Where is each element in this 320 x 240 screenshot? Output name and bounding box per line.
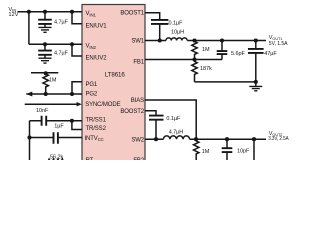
capacitor C2 4.7uF xyxy=(44,44,46,50)
capacitor C1 4.7uF xyxy=(44,12,46,20)
wire VIN rail down xyxy=(28,12,30,45)
svg-text:1µF: 1µF xyxy=(54,123,64,129)
junction C6 at VOUT1 xyxy=(220,38,224,42)
svg-text:3.3V, 2.5A: 3.3V, 2.5A xyxy=(268,136,289,142)
svg-text:1M: 1M xyxy=(49,78,57,84)
arrow SYNC/MODE xyxy=(77,102,82,106)
wire FB1 xyxy=(145,59,222,61)
junction VIN rail top xyxy=(27,10,31,14)
wire SYNC/MODE xyxy=(25,103,78,105)
junction PG1 tap xyxy=(70,92,74,96)
resistor R5 1M FB2 xyxy=(194,139,199,162)
ground xyxy=(39,58,52,63)
svg-text:PG1: PG1 xyxy=(86,82,98,88)
capacitor C4 1uF INTVCC xyxy=(30,137,54,139)
IC U1 LT8616 body xyxy=(82,5,145,165)
wire EN/UV2 xyxy=(72,44,82,56)
svg-text:SW1: SW1 xyxy=(131,38,144,44)
wire TR/SS2 branch xyxy=(72,121,82,130)
wire SW2 xyxy=(145,138,163,140)
ground xyxy=(39,27,52,32)
svg-text:FB1: FB1 xyxy=(133,59,144,65)
wire EN/UV1 xyxy=(72,12,82,24)
resistor R2 56.2k RT xyxy=(30,159,83,164)
junction TR/SS tap xyxy=(70,119,74,123)
junction C5 at SW1 xyxy=(158,38,162,42)
svg-text:47µF: 47µF xyxy=(264,51,277,57)
wire VOUT2 xyxy=(190,138,266,140)
svg-text:4.7µF: 4.7µF xyxy=(54,20,69,26)
junction R3 at VOUT1 xyxy=(192,38,196,42)
ground output1 xyxy=(255,82,257,86)
svg-text:10pF: 10pF xyxy=(237,149,250,155)
capacitor C9 10pF xyxy=(226,139,228,148)
svg-text:VIN1: VIN1 xyxy=(86,11,97,17)
inductor L1 10uH xyxy=(166,38,187,41)
junction C7 at VOUT1 xyxy=(254,38,258,42)
svg-text:SW2: SW2 xyxy=(131,137,144,143)
junction R1 top xyxy=(44,71,48,75)
svg-text:TR/SS1: TR/SS1 xyxy=(86,118,107,124)
resistor R1 1M xyxy=(43,73,48,94)
junction C2 at VIN2 xyxy=(43,42,47,46)
wire VOUT1 xyxy=(187,40,266,42)
wire VIN2 xyxy=(29,43,82,45)
svg-text:LT8616: LT8616 xyxy=(105,73,126,79)
junction gnd output1 xyxy=(254,80,258,84)
wire BOOST2 xyxy=(145,111,156,116)
junction node FB1 xyxy=(192,57,196,61)
svg-text:BIAS: BIAS xyxy=(131,98,144,104)
svg-text:10µH: 10µH xyxy=(171,30,184,36)
svg-text:12V: 12V xyxy=(8,12,18,18)
junction R5 at VOUT2 xyxy=(194,137,198,141)
resistor R4 187k xyxy=(192,60,197,82)
wire TR/SS1 with C 10nF xyxy=(30,120,42,122)
node INTVCC rail bar xyxy=(31,72,58,74)
svg-text:EN/UV1: EN/UV1 xyxy=(86,23,108,29)
svg-text:VIN2: VIN2 xyxy=(86,44,97,50)
svg-text:EN/UV2: EN/UV2 xyxy=(86,56,108,62)
resistor R3 1M xyxy=(192,41,197,60)
junction C8 at SW2 xyxy=(154,137,158,141)
wire VIN1 xyxy=(18,11,83,13)
capacitor C8 0.1uF boost2 xyxy=(149,116,164,120)
arrow PG2 xyxy=(26,92,32,97)
wire ground rail left xyxy=(29,121,31,161)
svg-text:10nF: 10nF xyxy=(36,108,49,114)
svg-text:1M: 1M xyxy=(202,149,210,155)
wire PG1 bracket xyxy=(72,82,82,94)
svg-text:BOOST2: BOOST2 xyxy=(120,109,144,115)
svg-text:187k: 187k xyxy=(200,66,212,72)
junction C9 at VOUT2 xyxy=(225,137,229,141)
svg-text:BOOST1: BOOST1 xyxy=(120,10,144,16)
junction C10 at VOUT2 xyxy=(252,137,256,141)
svg-text:4.7µF: 4.7µF xyxy=(54,51,69,57)
wire BOOST1 xyxy=(145,13,160,20)
svg-text:5V, 1.5A: 5V, 1.5A xyxy=(269,41,288,47)
wire output cap 2 branch xyxy=(253,139,255,162)
inductor L2 4.7uH xyxy=(163,136,189,139)
wire BIAS xyxy=(145,100,196,139)
svg-text:FB2: FB2 xyxy=(133,158,144,160)
capacitor C5 0.1uF boost1 xyxy=(151,20,168,24)
svg-text:56.2k: 56.2k xyxy=(50,155,64,161)
svg-text:PG2: PG2 xyxy=(86,91,98,97)
svg-text:5.6pF: 5.6pF xyxy=(231,51,246,57)
wire SW1 xyxy=(145,40,166,42)
svg-text:RT: RT xyxy=(86,158,94,160)
svg-text:4.7µH: 4.7µH xyxy=(169,129,184,135)
junction EN/UV2 tap xyxy=(70,42,74,46)
svg-text:0.1µF: 0.1µF xyxy=(169,20,184,26)
junction EN/UV1 tap xyxy=(70,10,74,14)
svg-text:INTVCC: INTVCC xyxy=(85,136,104,142)
junction C4 on gnd rail xyxy=(27,135,31,139)
capacitor C7 47uF xyxy=(255,41,257,49)
svg-text:1M: 1M xyxy=(202,47,210,53)
svg-text:TR/SS2: TR/SS2 xyxy=(86,126,107,132)
capacitor C6 5.6pF xyxy=(221,41,223,51)
junction R1 bottom on PG2 xyxy=(44,92,48,96)
wire FB1 gnd run xyxy=(195,81,256,83)
junction C1 at VIN1 xyxy=(43,10,47,14)
svg-text:SYNC/MODE: SYNC/MODE xyxy=(85,102,120,108)
wire PG2 xyxy=(26,93,82,95)
svg-text:0.1µF: 0.1µF xyxy=(166,116,181,122)
